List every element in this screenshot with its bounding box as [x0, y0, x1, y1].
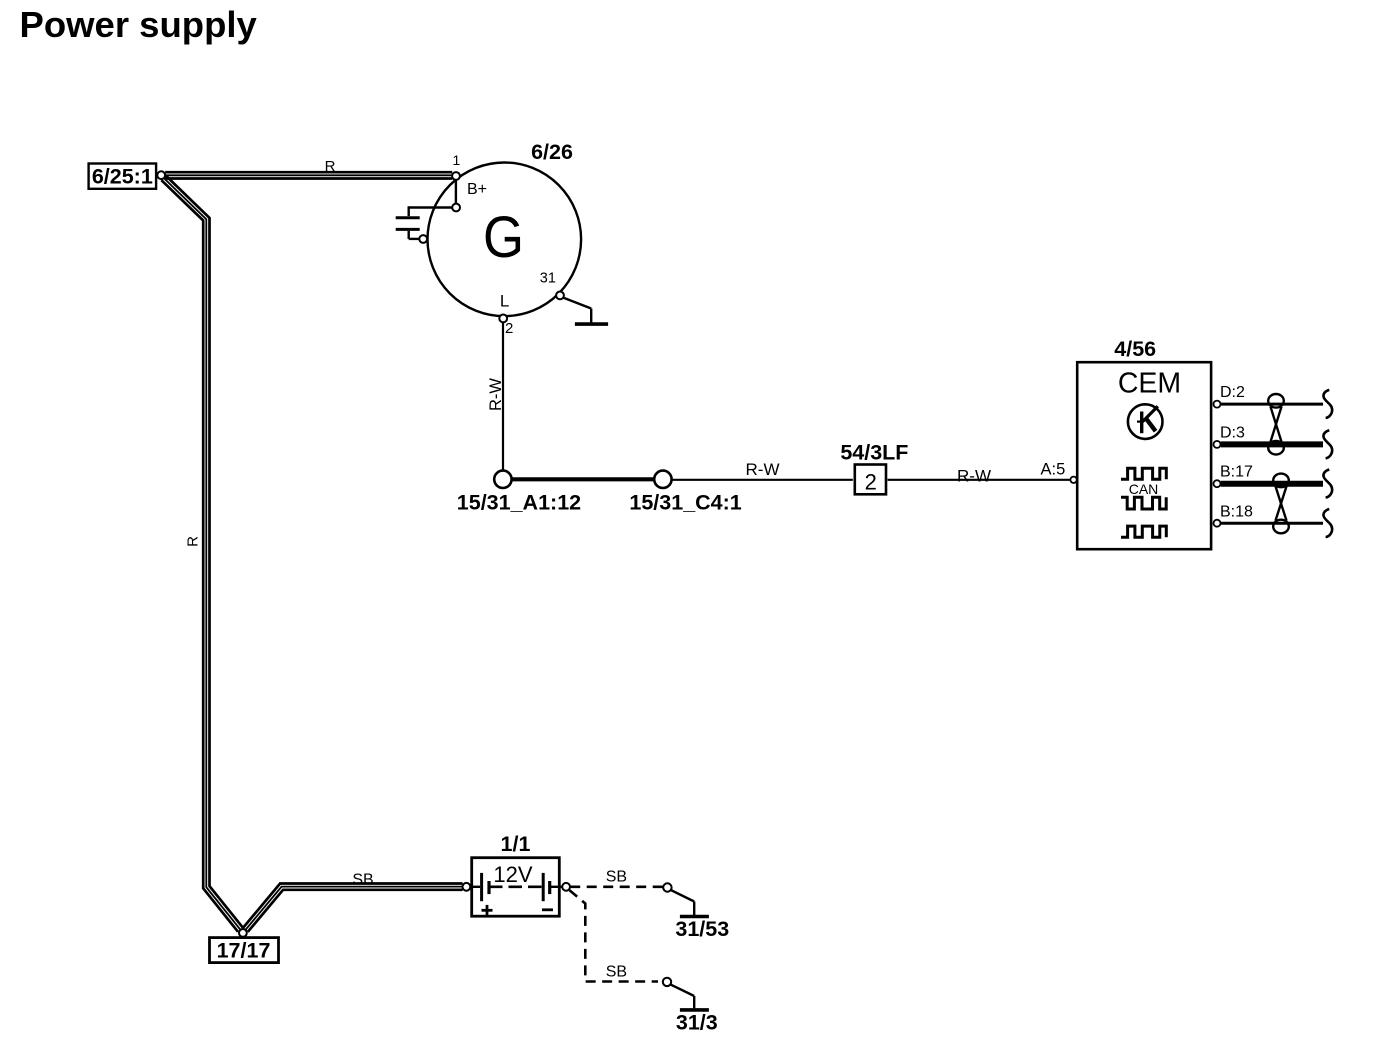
svg-text:D:2: D:2	[1220, 384, 1245, 401]
node 15/31_C4:1	[654, 471, 671, 488]
svg-text:4/56: 4/56	[1114, 337, 1156, 361]
wire SB dashed battery to 31/3	[570, 890, 659, 981]
svg-text:Power supply: Power supply	[20, 4, 258, 45]
wire B:17	[1221, 481, 1323, 487]
generator G 6/26	[428, 163, 582, 317]
twisted pair marker D:2/D:3	[1268, 394, 1284, 455]
svg-text:17/17: 17/17	[217, 939, 271, 963]
wire R from 6/25:1 to generator pin 1	[165, 172, 452, 178]
wire pin1 to suppressor terminal	[455, 180, 457, 203]
node 15/31_A1:12	[494, 471, 511, 488]
wire SB dashed battery to 31/53	[570, 885, 663, 888]
twisted pair marker B:17/B:18	[1273, 474, 1289, 534]
svg-text:1: 1	[453, 152, 461, 168]
svg-text:6/26: 6/26	[531, 140, 573, 164]
svg-text:31/53: 31/53	[675, 917, 729, 941]
svg-text:CAN: CAN	[1129, 481, 1159, 497]
pin D:2 terminal	[1214, 401, 1221, 408]
svg-text:CEM: CEM	[1118, 367, 1181, 399]
terminal capacitor top	[452, 204, 460, 212]
svg-text:1/1: 1/1	[501, 832, 531, 856]
svg-text:R-W: R-W	[487, 378, 505, 411]
ground 31/53	[671, 890, 709, 917]
noise suppressor capacitor	[396, 206, 452, 239]
svg-text:R: R	[325, 158, 336, 175]
wire break squiggle B:18	[1323, 509, 1332, 537]
ground 31/3	[670, 984, 709, 1010]
svg-text:R-W: R-W	[957, 467, 991, 486]
wire break squiggle D:2	[1323, 390, 1332, 418]
svg-text:B+: B+	[467, 181, 487, 198]
pin 31 terminal	[556, 292, 564, 300]
svg-text:R-W: R-W	[746, 460, 780, 479]
svg-text:A:5: A:5	[1041, 460, 1066, 478]
pin B:18 terminal	[1214, 520, 1221, 527]
ground connector 17/17	[210, 938, 279, 963]
svg-text:2: 2	[865, 470, 877, 495]
terminal at 31/3	[663, 978, 671, 986]
svg-text:31: 31	[540, 271, 556, 287]
wire R-W fuse to CEM pin A:5	[888, 479, 1070, 481]
wire break squiggle B:17	[1323, 470, 1332, 498]
connector 6/25:1	[89, 164, 157, 189]
fuse 54/3LF pin 2	[855, 465, 886, 495]
CEM module 4/56	[1077, 362, 1211, 549]
svg-text:SB: SB	[352, 871, 373, 888]
terminal at 31/53	[663, 883, 671, 891]
wire D:2	[1221, 403, 1323, 406]
CAN bus symbol	[1121, 468, 1166, 537]
pin D:3 terminal	[1214, 441, 1221, 448]
svg-text:L: L	[500, 292, 509, 311]
wire R-W node to fuse	[672, 479, 853, 481]
svg-text:6/25:1: 6/25:1	[92, 165, 153, 189]
svg-text:R: R	[185, 536, 202, 547]
terminal at 6/25:1	[157, 171, 165, 179]
wire R from 6/25:1 down to ground connector 17/17	[161, 176, 243, 932]
terminal capacitor bottom on generator body	[419, 235, 427, 243]
svg-text:54/3LF: 54/3LF	[840, 441, 908, 465]
pin 1 terminal	[452, 172, 460, 180]
svg-text:B:18: B:18	[1220, 504, 1253, 521]
battery left terminal	[463, 883, 471, 891]
pin L terminal	[499, 315, 507, 323]
pin B:17 terminal	[1214, 480, 1221, 487]
svg-text:31/3: 31/3	[676, 1011, 718, 1035]
svg-text:D:3: D:3	[1220, 425, 1245, 442]
thick wire between nodes	[512, 477, 654, 481]
wire break squiggle D:3	[1323, 430, 1332, 458]
svg-text:15/31_C4:1: 15/31_C4:1	[629, 491, 741, 515]
wire B:18	[1221, 522, 1323, 525]
immobilizer key symbol K	[1128, 404, 1163, 439]
ground at generator pin 31	[563, 298, 608, 325]
svg-text:B:17: B:17	[1220, 464, 1253, 481]
svg-text:SB: SB	[606, 868, 627, 885]
terminal at 17/17	[239, 929, 247, 937]
battery 1/1	[466, 858, 562, 917]
svg-text:SB: SB	[606, 963, 627, 980]
wire SB from 17/17 to battery 1/1	[243, 884, 463, 932]
wire D:3	[1221, 441, 1323, 447]
battery right terminal	[562, 883, 570, 891]
svg-text:G: G	[483, 205, 524, 270]
wire R-W from pin 2 down to node 15/31_A1:12	[502, 323, 504, 471]
svg-text:12V: 12V	[493, 862, 532, 887]
svg-text:15/31_A1:12: 15/31_A1:12	[457, 491, 581, 515]
svg-text:2: 2	[505, 320, 513, 337]
pin A:5 terminal	[1070, 477, 1076, 483]
